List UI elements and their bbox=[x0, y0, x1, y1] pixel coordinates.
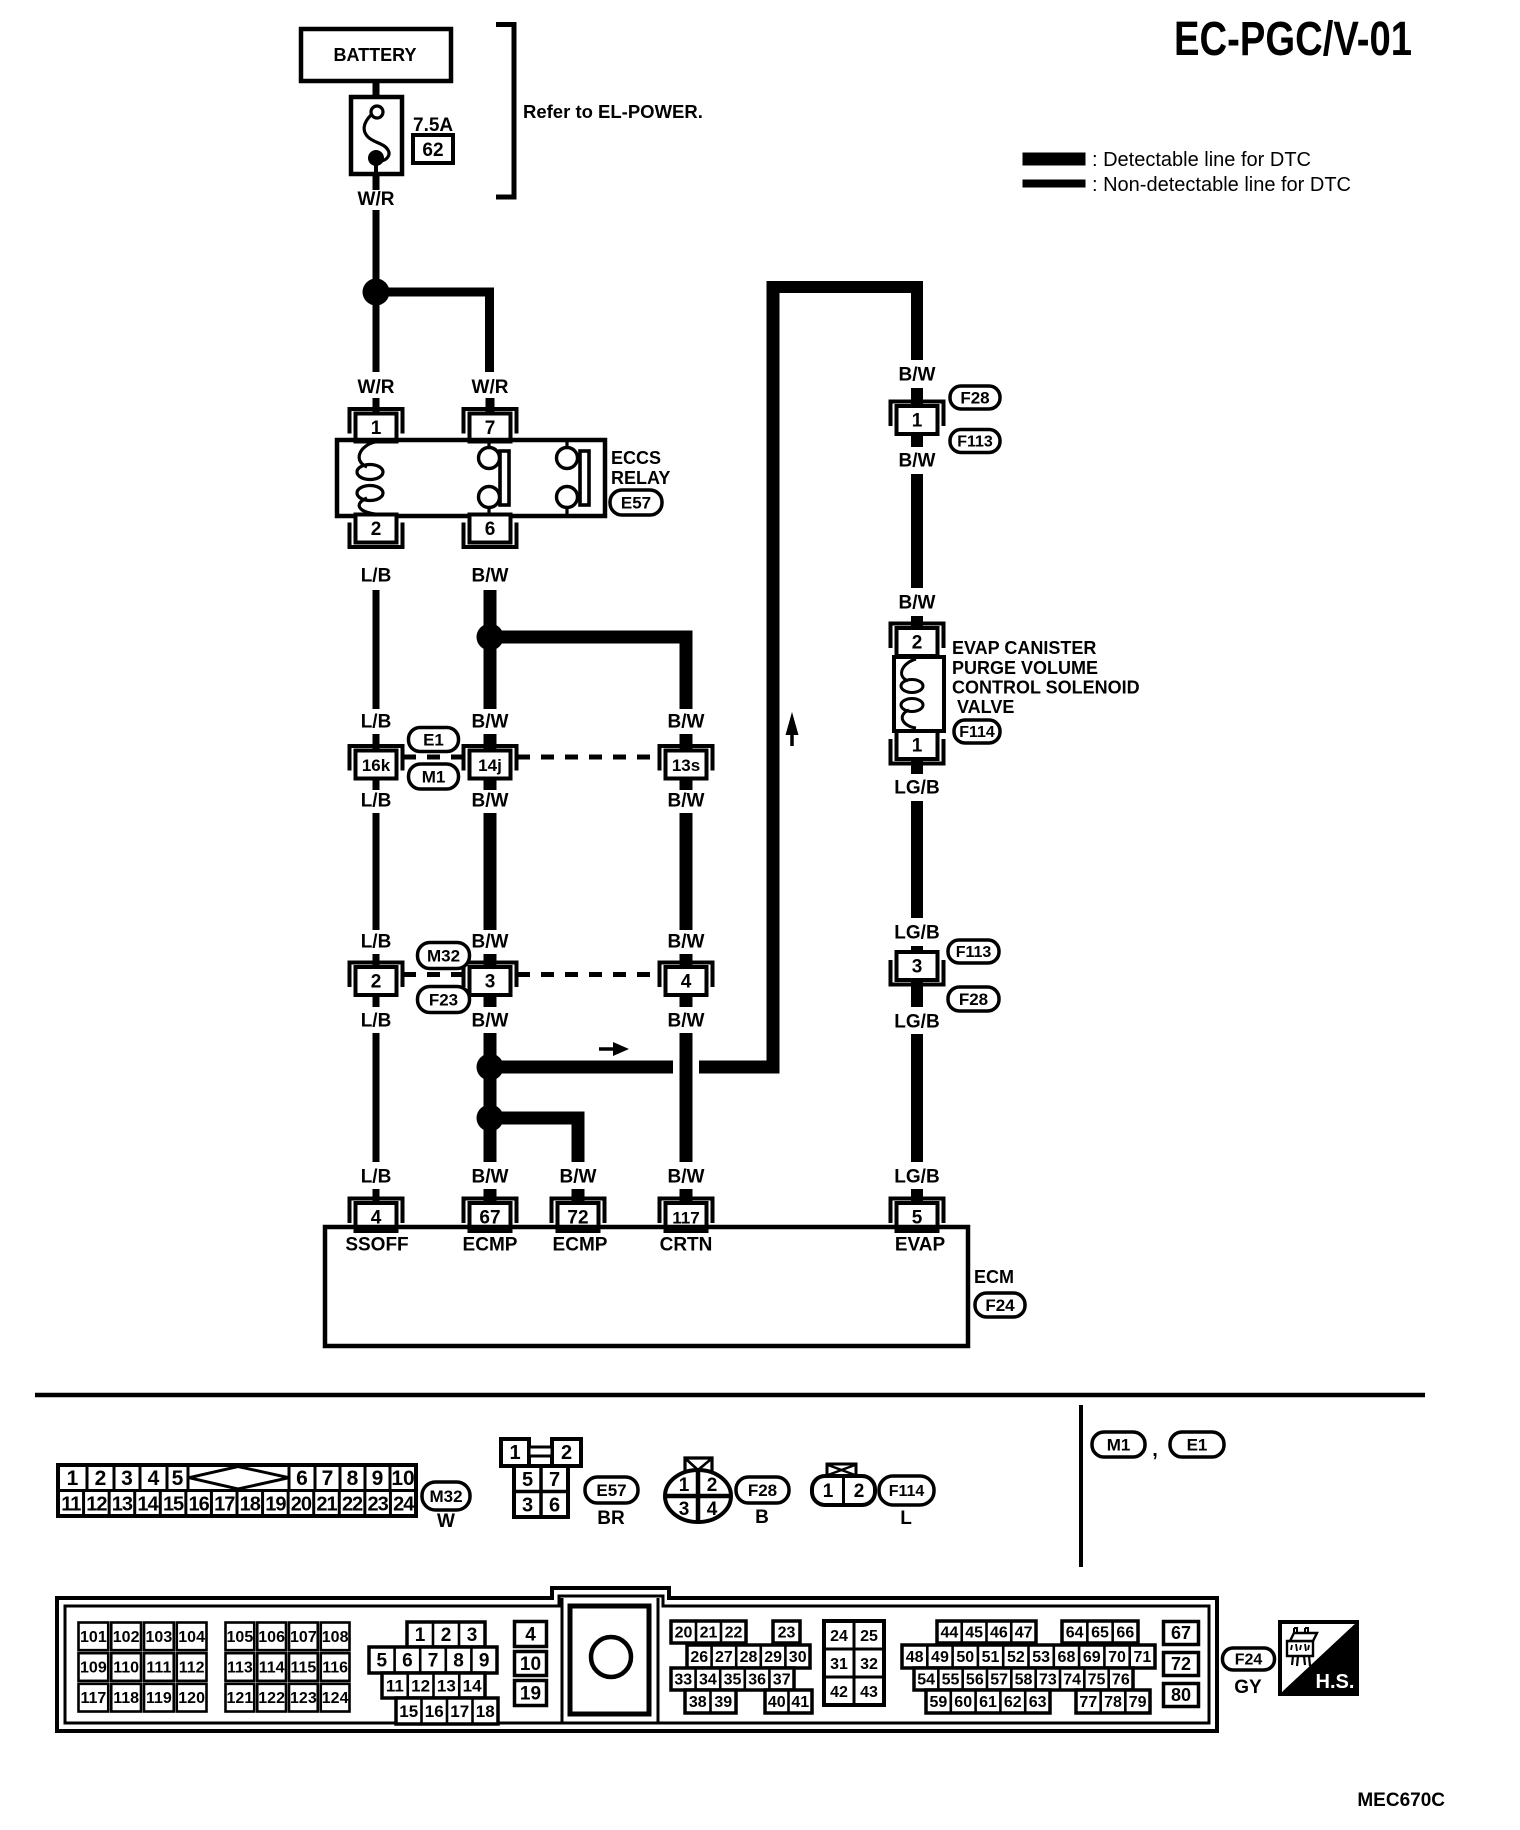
svg-text:F28: F28 bbox=[748, 1481, 777, 1500]
svg-text:22: 22 bbox=[725, 1625, 743, 1642]
svg-text:4: 4 bbox=[148, 1467, 160, 1490]
svg-text:M32: M32 bbox=[427, 946, 460, 965]
svg-text:20: 20 bbox=[675, 1625, 693, 1642]
svg-text:L/B: L/B bbox=[361, 712, 392, 733]
svg-text:GY: GY bbox=[1234, 1677, 1262, 1698]
svg-text:12: 12 bbox=[86, 1494, 107, 1516]
svg-text:1: 1 bbox=[679, 1475, 690, 1496]
svg-text:B/W: B/W bbox=[899, 451, 936, 472]
svg-text:B/W: B/W bbox=[668, 791, 705, 812]
svg-text:VALVE: VALVE bbox=[957, 697, 1014, 717]
svg-text:21: 21 bbox=[700, 1625, 718, 1642]
svg-text:E57: E57 bbox=[596, 1481, 626, 1500]
svg-text:15: 15 bbox=[163, 1494, 184, 1516]
svg-text:17: 17 bbox=[214, 1494, 235, 1516]
svg-text:45: 45 bbox=[965, 1625, 983, 1642]
svg-text:W/R: W/R bbox=[358, 189, 395, 210]
svg-text:23: 23 bbox=[368, 1494, 389, 1516]
svg-text:LG/B: LG/B bbox=[894, 1012, 939, 1033]
svg-text:78: 78 bbox=[1104, 1694, 1122, 1711]
svg-text:123: 123 bbox=[290, 1690, 317, 1707]
svg-text:B/W: B/W bbox=[668, 1011, 705, 1032]
svg-text:70: 70 bbox=[1108, 1649, 1126, 1666]
svg-text:13: 13 bbox=[112, 1494, 133, 1516]
svg-text:68: 68 bbox=[1058, 1649, 1076, 1666]
svg-text:77: 77 bbox=[1079, 1694, 1097, 1711]
svg-text:PURGE VOLUME: PURGE VOLUME bbox=[952, 658, 1098, 678]
svg-text:19: 19 bbox=[265, 1494, 286, 1516]
svg-text:7: 7 bbox=[485, 418, 496, 439]
svg-text:4: 4 bbox=[681, 972, 692, 993]
svg-text:F28: F28 bbox=[960, 388, 989, 407]
svg-text:B/W: B/W bbox=[668, 712, 705, 733]
svg-text:3: 3 bbox=[121, 1467, 133, 1490]
svg-text:32: 32 bbox=[860, 1656, 878, 1673]
svg-text:F23: F23 bbox=[429, 990, 458, 1009]
svg-text:E1: E1 bbox=[1187, 1435, 1208, 1454]
svg-text:Refer to EL-POWER.: Refer to EL-POWER. bbox=[523, 101, 703, 122]
svg-text:36: 36 bbox=[748, 1672, 766, 1689]
svg-text:63: 63 bbox=[1029, 1694, 1047, 1711]
svg-text:14j: 14j bbox=[478, 756, 502, 775]
svg-text:75: 75 bbox=[1088, 1672, 1106, 1689]
svg-text:11: 11 bbox=[386, 1676, 404, 1695]
svg-text:66: 66 bbox=[1116, 1625, 1134, 1642]
svg-text:ECMP: ECMP bbox=[553, 1235, 608, 1256]
svg-text:26: 26 bbox=[690, 1649, 708, 1666]
svg-text:117: 117 bbox=[672, 1209, 699, 1228]
svg-text:60: 60 bbox=[954, 1694, 972, 1711]
svg-text:L/B: L/B bbox=[361, 1167, 392, 1188]
svg-text:16k: 16k bbox=[362, 756, 391, 775]
svg-text:18: 18 bbox=[240, 1494, 261, 1516]
svg-text:115: 115 bbox=[290, 1660, 316, 1677]
svg-text:67: 67 bbox=[1171, 1623, 1191, 1643]
svg-text:11: 11 bbox=[61, 1494, 81, 1516]
svg-text:73: 73 bbox=[1039, 1672, 1057, 1689]
svg-text:16: 16 bbox=[425, 1702, 444, 1721]
svg-text:5: 5 bbox=[172, 1467, 184, 1490]
svg-text:7.5A: 7.5A bbox=[413, 115, 453, 136]
svg-text:34: 34 bbox=[699, 1672, 717, 1689]
svg-text:F114: F114 bbox=[959, 724, 995, 741]
svg-text:112: 112 bbox=[179, 1660, 205, 1677]
svg-text:61: 61 bbox=[979, 1694, 997, 1711]
svg-text:F24: F24 bbox=[985, 1296, 1015, 1315]
svg-text:7: 7 bbox=[549, 1469, 560, 1491]
svg-text:3: 3 bbox=[679, 1499, 690, 1520]
svg-text:E1: E1 bbox=[423, 730, 444, 749]
svg-text:42: 42 bbox=[830, 1684, 848, 1701]
svg-text:B/W: B/W bbox=[472, 1011, 509, 1032]
svg-text:104: 104 bbox=[178, 1629, 205, 1646]
svg-text:114: 114 bbox=[259, 1660, 285, 1677]
svg-text:CONTROL SOLENOID: CONTROL SOLENOID bbox=[952, 678, 1140, 698]
svg-text:L/B: L/B bbox=[361, 932, 392, 953]
svg-text:B/W: B/W bbox=[899, 593, 936, 614]
svg-text:23: 23 bbox=[778, 1625, 796, 1642]
svg-text:EC-PGC/V-01: EC-PGC/V-01 bbox=[1174, 13, 1412, 66]
svg-text:80: 80 bbox=[1171, 1685, 1191, 1705]
svg-text:M32: M32 bbox=[429, 1487, 462, 1506]
svg-text:62: 62 bbox=[422, 140, 443, 161]
svg-text:1: 1 bbox=[67, 1467, 79, 1490]
svg-text:1: 1 bbox=[371, 418, 382, 439]
svg-text:EVAP: EVAP bbox=[895, 1235, 946, 1256]
svg-text:116: 116 bbox=[322, 1660, 348, 1677]
svg-text:10: 10 bbox=[391, 1467, 414, 1490]
svg-text:64: 64 bbox=[1066, 1625, 1084, 1642]
svg-text:2: 2 bbox=[441, 1625, 452, 1646]
svg-text:7: 7 bbox=[322, 1467, 334, 1490]
svg-text:2: 2 bbox=[854, 1481, 865, 1502]
svg-text:21: 21 bbox=[316, 1494, 337, 1516]
svg-text:12: 12 bbox=[411, 1676, 430, 1695]
svg-text:55: 55 bbox=[942, 1672, 960, 1689]
svg-text:58: 58 bbox=[1015, 1672, 1033, 1689]
svg-text:RELAY: RELAY bbox=[611, 468, 670, 488]
svg-text:52: 52 bbox=[1007, 1649, 1025, 1666]
svg-text:28: 28 bbox=[740, 1649, 758, 1666]
svg-text:L/B: L/B bbox=[361, 1011, 392, 1032]
svg-text:BATTERY: BATTERY bbox=[334, 45, 417, 65]
svg-text:50: 50 bbox=[956, 1649, 974, 1666]
svg-text:2: 2 bbox=[561, 1442, 572, 1464]
svg-text:4: 4 bbox=[525, 1625, 536, 1646]
svg-text:29: 29 bbox=[764, 1649, 782, 1666]
svg-text:,: , bbox=[1152, 1439, 1158, 1461]
svg-text:14: 14 bbox=[137, 1494, 159, 1516]
svg-text:53: 53 bbox=[1032, 1649, 1050, 1666]
svg-text:3: 3 bbox=[467, 1625, 478, 1646]
svg-text:33: 33 bbox=[674, 1672, 692, 1689]
svg-text:8: 8 bbox=[347, 1467, 359, 1490]
svg-text:2: 2 bbox=[371, 972, 382, 993]
svg-text:B/W: B/W bbox=[472, 1167, 509, 1188]
svg-text:40: 40 bbox=[768, 1694, 786, 1711]
svg-text:76: 76 bbox=[1112, 1672, 1130, 1689]
svg-text:E57: E57 bbox=[621, 493, 651, 512]
svg-text:13s: 13s bbox=[672, 756, 700, 775]
svg-text:W/R: W/R bbox=[472, 377, 509, 398]
svg-text:109: 109 bbox=[80, 1660, 107, 1677]
svg-text:47: 47 bbox=[1015, 1625, 1033, 1642]
svg-text:16: 16 bbox=[189, 1494, 210, 1516]
svg-text:1: 1 bbox=[509, 1442, 520, 1464]
svg-text:65: 65 bbox=[1091, 1625, 1109, 1642]
svg-text:2: 2 bbox=[95, 1467, 107, 1490]
svg-text:MEC670C: MEC670C bbox=[1357, 1790, 1445, 1811]
svg-text:107: 107 bbox=[290, 1629, 317, 1646]
svg-text:SSOFF: SSOFF bbox=[345, 1235, 408, 1256]
svg-text:3: 3 bbox=[485, 972, 496, 993]
svg-text:5: 5 bbox=[377, 1651, 388, 1672]
svg-text:101: 101 bbox=[80, 1629, 107, 1646]
svg-text:118: 118 bbox=[113, 1690, 139, 1707]
svg-text:54: 54 bbox=[917, 1672, 935, 1689]
svg-text:F24: F24 bbox=[1235, 1652, 1263, 1669]
svg-text:ECMP: ECMP bbox=[463, 1235, 518, 1256]
svg-text:ECCS: ECCS bbox=[611, 448, 661, 468]
svg-text:10: 10 bbox=[520, 1654, 541, 1675]
svg-text:6: 6 bbox=[549, 1495, 560, 1517]
svg-text:124: 124 bbox=[322, 1690, 349, 1707]
svg-text:31: 31 bbox=[830, 1656, 848, 1673]
svg-text:51: 51 bbox=[982, 1649, 1000, 1666]
svg-text:5: 5 bbox=[522, 1469, 533, 1491]
svg-text:BR: BR bbox=[597, 1508, 625, 1529]
svg-text:1: 1 bbox=[912, 411, 923, 432]
svg-text:17: 17 bbox=[450, 1702, 469, 1721]
svg-text:105: 105 bbox=[227, 1629, 254, 1646]
svg-text:B/W: B/W bbox=[899, 365, 936, 386]
svg-text:103: 103 bbox=[146, 1629, 173, 1646]
svg-text:62: 62 bbox=[1004, 1694, 1022, 1711]
svg-text:49: 49 bbox=[931, 1649, 949, 1666]
svg-text:B/W: B/W bbox=[668, 932, 705, 953]
svg-text:B/W: B/W bbox=[560, 1167, 597, 1188]
svg-text:F113: F113 bbox=[956, 944, 992, 961]
svg-text:2: 2 bbox=[912, 633, 923, 654]
svg-text:37: 37 bbox=[773, 1672, 791, 1689]
svg-text:56: 56 bbox=[966, 1672, 984, 1689]
svg-text:25: 25 bbox=[860, 1628, 878, 1645]
svg-text:6: 6 bbox=[296, 1467, 308, 1490]
svg-text:13: 13 bbox=[437, 1676, 456, 1695]
svg-text:74: 74 bbox=[1063, 1672, 1081, 1689]
svg-text:35: 35 bbox=[724, 1672, 742, 1689]
svg-text:57: 57 bbox=[990, 1672, 1008, 1689]
svg-text:18: 18 bbox=[476, 1702, 495, 1721]
svg-text:59: 59 bbox=[930, 1694, 948, 1711]
svg-text:108: 108 bbox=[322, 1629, 349, 1646]
svg-text:B/W: B/W bbox=[472, 712, 509, 733]
svg-text:71: 71 bbox=[1133, 1649, 1151, 1666]
svg-text:111: 111 bbox=[146, 1660, 171, 1677]
svg-text:43: 43 bbox=[860, 1684, 878, 1701]
svg-text:48: 48 bbox=[906, 1649, 924, 1666]
svg-text:LG/B: LG/B bbox=[894, 923, 939, 944]
svg-text:15: 15 bbox=[399, 1702, 418, 1721]
svg-text:27: 27 bbox=[715, 1649, 733, 1666]
svg-text:B/W: B/W bbox=[472, 791, 509, 812]
svg-text:ECM: ECM bbox=[974, 1267, 1014, 1287]
svg-text:LG/B: LG/B bbox=[894, 1167, 939, 1188]
svg-text:LG/B: LG/B bbox=[894, 778, 939, 799]
svg-text:: Detectable line for DTC: : Detectable line for DTC bbox=[1092, 149, 1311, 171]
svg-text:F28: F28 bbox=[959, 990, 988, 1009]
svg-text:119: 119 bbox=[146, 1690, 172, 1707]
svg-text:41: 41 bbox=[791, 1694, 809, 1711]
svg-text:24: 24 bbox=[830, 1628, 848, 1645]
svg-text:117: 117 bbox=[80, 1690, 106, 1707]
svg-text:8: 8 bbox=[453, 1651, 464, 1672]
svg-text:F113: F113 bbox=[957, 434, 993, 451]
svg-text:69: 69 bbox=[1083, 1649, 1101, 1666]
svg-text:M1: M1 bbox=[422, 767, 446, 786]
svg-text:3: 3 bbox=[522, 1495, 533, 1517]
svg-text:72: 72 bbox=[1171, 1654, 1191, 1674]
svg-text:1: 1 bbox=[912, 736, 923, 757]
svg-text:30: 30 bbox=[789, 1649, 807, 1666]
svg-text:14: 14 bbox=[463, 1676, 482, 1695]
svg-text:22: 22 bbox=[342, 1494, 363, 1516]
svg-text:W/R: W/R bbox=[358, 377, 395, 398]
svg-text:7: 7 bbox=[428, 1651, 439, 1672]
svg-text:M1: M1 bbox=[1107, 1435, 1131, 1454]
svg-text:2: 2 bbox=[371, 519, 382, 540]
svg-text:19: 19 bbox=[520, 1684, 541, 1705]
svg-text:H.S.: H.S. bbox=[1316, 1671, 1355, 1693]
svg-text:W: W bbox=[437, 1511, 455, 1532]
svg-text:4: 4 bbox=[707, 1499, 718, 1520]
svg-text:: Non-detectable line for DTC: : Non-detectable line for DTC bbox=[1092, 174, 1351, 196]
svg-text:EVAP CANISTER: EVAP CANISTER bbox=[952, 638, 1096, 658]
svg-text:9: 9 bbox=[479, 1651, 490, 1672]
svg-text:102: 102 bbox=[113, 1629, 140, 1646]
svg-text:6: 6 bbox=[485, 519, 496, 540]
svg-text:24: 24 bbox=[393, 1494, 415, 1516]
svg-text:9: 9 bbox=[372, 1467, 384, 1490]
svg-text:1: 1 bbox=[823, 1481, 834, 1502]
svg-text:CRTN: CRTN bbox=[660, 1235, 713, 1256]
svg-text:B/W: B/W bbox=[668, 1167, 705, 1188]
svg-text:38: 38 bbox=[689, 1694, 707, 1711]
svg-text:L/B: L/B bbox=[361, 791, 392, 812]
svg-text:L/B: L/B bbox=[361, 566, 392, 587]
svg-text:79: 79 bbox=[1129, 1694, 1147, 1711]
svg-text:113: 113 bbox=[227, 1660, 253, 1677]
svg-text:121: 121 bbox=[227, 1690, 254, 1707]
svg-text:2: 2 bbox=[707, 1475, 718, 1496]
svg-text:106: 106 bbox=[258, 1629, 285, 1646]
svg-text:46: 46 bbox=[990, 1625, 1008, 1642]
svg-text:110: 110 bbox=[113, 1660, 139, 1677]
svg-text:B/W: B/W bbox=[472, 566, 509, 587]
svg-text:122: 122 bbox=[258, 1690, 285, 1707]
svg-text:F114: F114 bbox=[889, 1483, 925, 1500]
svg-text:6: 6 bbox=[402, 1651, 413, 1672]
svg-text:20: 20 bbox=[291, 1494, 312, 1516]
svg-text:1: 1 bbox=[415, 1625, 426, 1646]
svg-text:44: 44 bbox=[940, 1625, 958, 1642]
svg-text:L: L bbox=[900, 1508, 912, 1529]
svg-text:3: 3 bbox=[912, 957, 923, 978]
svg-text:B/W: B/W bbox=[472, 932, 509, 953]
svg-text:B: B bbox=[755, 1507, 769, 1528]
svg-text:39: 39 bbox=[714, 1694, 732, 1711]
svg-text:120: 120 bbox=[178, 1690, 205, 1707]
